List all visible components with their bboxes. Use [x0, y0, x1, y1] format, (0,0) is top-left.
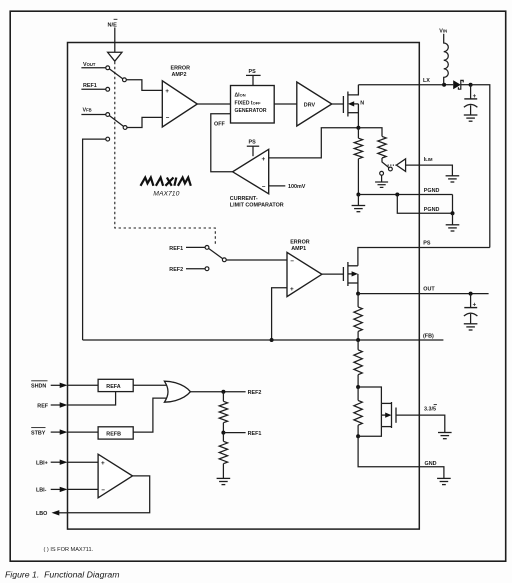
- transistor Q1 N-MOSFET: [343, 85, 358, 128]
- wire R1 top: [357, 294, 359, 307]
- svg-text:N/E: N/E: [108, 23, 118, 29]
- svg-text:DRV: DRV: [304, 103, 316, 109]
- switch S2 arm: [209, 249, 223, 259]
- wire SHDN: [68, 384, 99, 386]
- resistor R-ilim: [378, 136, 386, 158]
- wire R5 bottom: [222, 464, 224, 479]
- switch S1b throw VFB: [106, 113, 110, 117]
- svg-text:LIMIT COMPARATOR: LIMIT COMPARATOR: [230, 203, 284, 209]
- wire OFF: [211, 114, 233, 172]
- junction PGND1: [395, 193, 399, 197]
- block REFA: [98, 379, 133, 391]
- svg-text:100mV: 100mV: [288, 184, 306, 190]
- svg-text:−: −: [290, 258, 294, 265]
- resistor R3 divider: [354, 400, 362, 425]
- wire R4 top: [222, 392, 224, 402]
- wire REFA-OR: [133, 384, 166, 386]
- junction PGND2: [451, 211, 455, 215]
- wire GND: [358, 436, 444, 478]
- switch ILIM pole: [380, 171, 384, 175]
- svg-text:REF2: REF2: [169, 267, 183, 273]
- IC boundary MAX710: [68, 43, 420, 530]
- comparator CURRENT-LIMIT: [233, 149, 269, 194]
- wire LX: [358, 84, 444, 86]
- wire FB sense: [83, 139, 106, 340]
- svg-text:PS: PS: [249, 69, 257, 75]
- wire R4 bottom: [222, 423, 224, 433]
- wire REFB-OR: [133, 398, 166, 432]
- svg-text:N: N: [360, 101, 364, 107]
- ground PGND: [452, 213, 454, 224]
- ground internal: [357, 195, 359, 206]
- svg-text:GENERATOR: GENERATOR: [235, 108, 267, 114]
- svg-text:ERROR: ERROR: [171, 65, 191, 71]
- op-amp ERROR AMP2: [162, 81, 197, 127]
- capacitor C1 polarized: [470, 85, 472, 99]
- wire gen to DRV: [274, 103, 297, 105]
- switch S1a pole: [123, 78, 127, 82]
- wire R1 bottom: [357, 331, 359, 340]
- svg-text:AMP2: AMP2: [172, 72, 187, 78]
- wire pole to amp2 +: [126, 80, 162, 91]
- switch S2 throw REF2: [205, 267, 209, 271]
- ground ILIM: [446, 175, 460, 177]
- wire Rsense bottom: [357, 159, 359, 195]
- inductor L1: [444, 34, 449, 85]
- wire LBO: [68, 476, 150, 513]
- junction LX-inductor: [442, 83, 446, 87]
- resistor R1 divider: [354, 307, 362, 332]
- comparator LBI: [98, 454, 132, 498]
- wire amp1 + input: [272, 288, 287, 340]
- wire STBY: [68, 431, 99, 433]
- svg-text:PGND: PGND: [424, 188, 440, 194]
- svg-text:SHDN: SHDN: [31, 384, 46, 390]
- wire comparator + to sense: [269, 128, 359, 158]
- switch S1b arm: [109, 116, 123, 127]
- svg-text:LBI-: LBI-: [36, 488, 47, 494]
- wire amp1 out: [322, 273, 344, 275]
- wire REF1 sel: [186, 246, 205, 248]
- wire REF1 top: [81, 88, 105, 90]
- OR gate: [164, 381, 190, 402]
- svg-text:PS: PS: [249, 140, 257, 146]
- junction REF1 node: [221, 431, 225, 435]
- svg-text:MAX710: MAX710: [153, 191, 179, 198]
- svg-text:+: +: [290, 286, 294, 293]
- svg-text:PGND: PGND: [424, 207, 440, 213]
- svg-text:+: +: [165, 88, 169, 95]
- switch ILIM arm: [382, 158, 389, 168]
- wire PGND2: [397, 195, 452, 214]
- wire OUT: [358, 293, 489, 295]
- wire VFB: [81, 114, 105, 116]
- switch S1a arm: [109, 69, 122, 79]
- switch S1b pole: [123, 126, 127, 130]
- switch S1b throw FB sense: [106, 137, 110, 141]
- svg-text:OFF: OFF: [214, 122, 225, 128]
- svg-text:(FB): (FB): [423, 334, 434, 340]
- svg-text:REF: REF: [37, 403, 48, 409]
- wire PS pin: [358, 248, 490, 266]
- wire REF2 sel: [186, 268, 205, 270]
- wire OR out: [190, 391, 245, 393]
- dashed control line: [115, 62, 216, 244]
- diode D1 schottky: [446, 84, 453, 86]
- svg-text:LBI+: LBI+: [36, 461, 48, 467]
- wire Q3 drain: [358, 387, 381, 403]
- wire VOUT: [81, 67, 105, 69]
- wire DRV to gate: [332, 103, 344, 105]
- svg-text:ILIM: ILIM: [424, 157, 433, 163]
- junction OUT-cap: [469, 292, 473, 296]
- svg-text:+: +: [262, 156, 266, 163]
- wire R2 bottom: [357, 375, 359, 387]
- switch S2 throw REF1: [205, 246, 209, 250]
- svg-text:REFB: REFB: [106, 431, 121, 437]
- wire 100mV ref: [269, 185, 286, 187]
- svg-text:LX: LX: [423, 78, 430, 84]
- resistor R2 divider: [354, 350, 362, 375]
- buffer triangle N/E: [108, 52, 122, 61]
- junction R2-R3: [356, 385, 360, 389]
- svg-text:3.3/5: 3.3/5: [424, 406, 436, 412]
- wire LBI-: [68, 488, 99, 490]
- switch S1a throw REF1: [106, 87, 110, 91]
- wire N/E: [114, 28, 116, 53]
- wire R5 top: [222, 433, 224, 442]
- svg-text:ERROR: ERROR: [290, 239, 310, 245]
- wire 3.3/5 pin: [396, 415, 445, 432]
- wire REF1 node: [223, 432, 245, 434]
- wire PGND1 down: [452, 195, 454, 214]
- transistor Q2 P-MOSFET: [343, 262, 358, 294]
- ground 3.3/5: [438, 432, 452, 434]
- svg-text:STBY: STBY: [31, 430, 46, 436]
- svg-text:−: −: [262, 184, 266, 191]
- junction R3 bottom: [356, 434, 360, 438]
- resistor R4 ref divider: [219, 401, 227, 422]
- switch S2 pole: [222, 258, 226, 262]
- wire REF: [68, 392, 116, 405]
- svg-text:LBO: LBO: [36, 511, 47, 517]
- junction Rsense-PGND: [356, 193, 360, 197]
- switch ILIM throw: [389, 167, 393, 171]
- wire to R-ilim: [358, 128, 382, 137]
- ground REF divider: [217, 477, 231, 479]
- wire S2 to amp1: [226, 259, 287, 261]
- resistor R-sense: [354, 138, 362, 159]
- junction D1-cap: [469, 83, 473, 87]
- wire ILIM pin: [406, 165, 453, 175]
- junction amp1-FB: [270, 338, 274, 342]
- svg-text:OUT: OUT: [423, 287, 435, 293]
- junction Q2 source-OUT: [356, 292, 360, 296]
- junction REF2 node: [221, 390, 225, 394]
- wire LBI+: [68, 461, 99, 463]
- svg-text:REF1: REF1: [83, 83, 97, 89]
- svg-text:−: −: [101, 487, 105, 494]
- ground C2: [464, 323, 478, 325]
- block REFB: [98, 427, 133, 439]
- svg-text:VFB: VFB: [83, 108, 92, 114]
- wire PGND1: [358, 194, 452, 196]
- svg-text:REF2: REF2: [248, 390, 262, 396]
- ground C1: [464, 114, 478, 116]
- wire FB: [83, 339, 444, 341]
- transistor Q3 N-MOSFET: [381, 402, 396, 428]
- wire R3 top: [357, 387, 359, 400]
- resistor R5 ref divider: [219, 441, 227, 463]
- wire ILIM pole gnd: [381, 175, 383, 182]
- wire to PS bootstrap: [471, 85, 490, 248]
- buffer ILIM: [396, 159, 405, 172]
- wire pole to amp2 -: [127, 117, 162, 127]
- svg-text:REF1: REF1: [248, 431, 262, 437]
- junction Q1 source: [356, 126, 360, 130]
- wire Q3 source: [358, 427, 381, 437]
- svg-text:( ) IS FOR MAX711.: ( ) IS FOR MAX711.: [44, 547, 94, 553]
- wire amp2 out: [197, 103, 230, 105]
- MAXIM logo: [141, 178, 191, 186]
- svg-text:−: −: [166, 115, 170, 122]
- wire R2 top: [357, 340, 359, 350]
- wire Rsense top: [357, 128, 359, 138]
- junction FB-R1: [356, 338, 360, 342]
- wire R3 bottom: [357, 425, 359, 436]
- capacitor C2 polarized: [470, 294, 472, 308]
- svg-text:PS: PS: [423, 241, 431, 247]
- buffer DRV: [297, 82, 332, 126]
- op-amp ERROR AMP1: [287, 252, 322, 296]
- ground ILIM switch: [375, 181, 388, 183]
- svg-text:REF1: REF1: [169, 246, 183, 252]
- switch S1a throw VOUT: [106, 66, 110, 70]
- dotted ILIM control: [388, 164, 396, 166]
- svg-text:REFA: REFA: [106, 384, 120, 390]
- block tON/tOFF generator: [231, 86, 275, 124]
- svg-text:AMP1: AMP1: [291, 246, 306, 252]
- svg-text:Figure 1. Functional Diagram: Figure 1. Functional Diagram: [5, 570, 119, 580]
- svg-text:VIN: VIN: [439, 29, 447, 35]
- svg-text:+: +: [101, 460, 105, 467]
- svg-text:CURRENT-: CURRENT-: [230, 196, 258, 202]
- svg-text:GND: GND: [425, 461, 437, 467]
- ground GND pin: [437, 477, 451, 479]
